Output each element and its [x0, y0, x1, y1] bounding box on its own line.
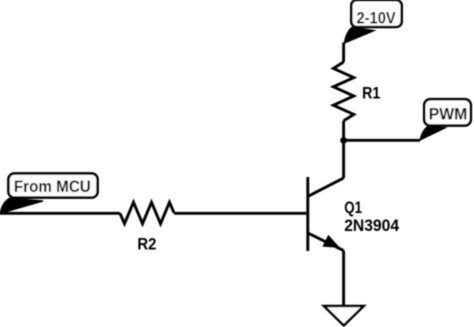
transistor Q1 2N3904	[308, 177, 400, 251]
net flag PWM	[420, 99, 471, 140]
wire From MCU to R2	[0, 212, 120, 215]
voltage flag 2-10V	[344, 0, 401, 43]
svg-text:R2: R2	[137, 235, 156, 253]
input flag From MCU	[0, 173, 98, 213]
svg-text:R1: R1	[362, 85, 380, 103]
wire emitter to ground	[342, 251, 345, 306]
wire flag to R1	[342, 43, 345, 63]
wire R2 to base	[174, 212, 307, 215]
ground	[324, 306, 364, 325]
wire R1 to node	[342, 121, 345, 141]
svg-text:PWM: PWM	[429, 105, 468, 123]
svg-text:2-10V: 2-10V	[357, 9, 396, 27]
wire node to PWM flag	[344, 139, 420, 142]
svg-text:Q1: Q1	[344, 199, 362, 217]
node junction	[340, 137, 347, 144]
resistor R2	[120, 202, 174, 253]
svg-text:2N3904: 2N3904	[344, 217, 400, 235]
wire node to collector	[342, 140, 345, 178]
resistor R1	[333, 62, 380, 121]
svg-text:From MCU: From MCU	[14, 178, 91, 196]
